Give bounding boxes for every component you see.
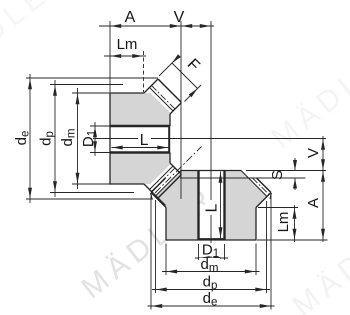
extension dm bottom xyxy=(72,183,112,185)
extension dm bottom right xyxy=(255,244,257,276)
extension line G2 tip plane / S xyxy=(180,177,306,179)
gear G2 left tip face xyxy=(151,193,152,199)
gear G1 bore top edge xyxy=(110,125,170,127)
dimension L G1 xyxy=(112,146,169,150)
dimension de bottom xyxy=(148,304,275,308)
gear G1 upper tooth root line xyxy=(150,88,174,112)
dimension D1 left xyxy=(93,122,97,156)
dimension dm left xyxy=(76,88,80,189)
gear G1 outline xyxy=(110,79,182,206)
svg-text:V: V xyxy=(174,9,185,26)
extension D1 bottom xyxy=(90,152,110,154)
label D1 bottom xyxy=(200,243,222,256)
gear G2 right flank gray xyxy=(225,171,268,241)
extension line G2 bottom face right xyxy=(257,239,328,241)
gear G2 bottom bore edge xyxy=(198,238,226,240)
dimension Lm right xyxy=(293,205,297,242)
dimension D1 bottom xyxy=(195,256,228,260)
extension de bottom xyxy=(26,198,153,200)
dimension S right xyxy=(293,158,297,190)
gear G1 bore front edge xyxy=(168,125,170,154)
extension de top xyxy=(26,77,158,79)
gear G1 lower tooth pitch line xyxy=(152,168,176,192)
extension dp bottom right xyxy=(266,201,268,293)
dimension dp bottom xyxy=(152,288,270,292)
extension dp bottom xyxy=(50,192,134,194)
svg-text:Lm: Lm xyxy=(117,36,138,53)
extension dp bottom left xyxy=(155,200,157,293)
dimension line Lm top xyxy=(104,54,146,58)
svg-text:L: L xyxy=(204,203,221,212)
svg-text:Lm: Lm xyxy=(275,212,292,233)
gear G1 hub upper gray xyxy=(110,93,171,126)
gear G2 bore right edge xyxy=(223,171,225,241)
gear G1 axis centerline xyxy=(93,138,326,140)
dimension dm bottom xyxy=(162,270,260,274)
extension dm bottom left xyxy=(165,244,167,276)
label dp bottom xyxy=(200,275,220,287)
dimension dp left xyxy=(53,80,57,197)
svg-text:A: A xyxy=(305,198,322,208)
gear G1 hub lower gray xyxy=(110,153,171,185)
extension line hub shoulder G1 (hidden) xyxy=(143,51,145,92)
extension de bottom left xyxy=(150,196,152,310)
dimension F xyxy=(159,54,201,101)
extension de bottom right xyxy=(270,196,272,310)
gear G2 left flank gray xyxy=(155,171,199,241)
extension line left face up xyxy=(109,21,111,92)
label L G1 xyxy=(138,133,151,146)
mesh pitch centerline xyxy=(155,147,202,194)
dimension L G2 xyxy=(219,172,223,239)
svg-text:L: L xyxy=(140,132,149,149)
gear G1 bore bottom edge xyxy=(110,151,170,153)
dimension line A/V top xyxy=(99,24,214,28)
gear G2 bore left edge xyxy=(197,171,199,241)
svg-text:S: S xyxy=(269,170,286,180)
svg-text:V: V xyxy=(305,148,322,158)
label de bottom xyxy=(200,292,220,304)
gear G1 upper tooth pitch line xyxy=(152,86,176,110)
dimension V/A right xyxy=(321,136,325,242)
svg-text:A: A xyxy=(125,9,136,26)
extension D1 bottom left xyxy=(198,244,200,260)
label dm bottom xyxy=(199,258,220,270)
extension D1 bottom right xyxy=(224,244,226,260)
extension dm top xyxy=(72,92,110,94)
gear G2 axis centerline xyxy=(210,21,212,258)
gear G2 outline xyxy=(151,171,271,241)
extension D1 top xyxy=(90,125,110,127)
dimension de left xyxy=(28,74,32,203)
gear G2 right tooth pitch line xyxy=(253,178,270,195)
gear G1 lower tooth root line xyxy=(150,166,174,190)
extension line G2 top face right xyxy=(246,170,326,172)
extension line tip-plane G1 / V left xyxy=(180,21,182,199)
gear G2 right tip face xyxy=(270,193,271,199)
extension line G2 shoulder right xyxy=(258,207,298,209)
label L G2 xyxy=(205,200,217,215)
extension dp top xyxy=(50,84,123,86)
